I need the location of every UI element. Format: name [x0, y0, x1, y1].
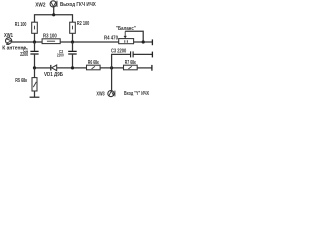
- wire R2 to mid bus: [72, 33, 74, 42]
- diode VD1: [51, 65, 57, 71]
- wire XW2 stem: [53, 7, 55, 15]
- svg-text:R4 470: R4 470: [104, 36, 118, 42]
- svg-text:"Баланс": "Баланс": [116, 26, 136, 32]
- node junction XW2 top bus: [52, 13, 55, 16]
- svg-text:2200: 2200: [20, 52, 28, 58]
- svg-text:XW2: XW2: [35, 3, 45, 9]
- wire R6 to R7: [100, 67, 123, 69]
- resistor R2: [70, 22, 76, 33]
- terminal bar mid bus: [151, 39, 153, 45]
- svg-text:VD1 Д9Б: VD1 Д9Б: [44, 72, 63, 78]
- node junction R1 mid bus: [33, 40, 36, 43]
- wire R7 to terminal: [137, 67, 151, 69]
- connector XW1: [6, 38, 12, 45]
- wire XW1 to R3: [12, 41, 42, 43]
- connector XW3: [108, 91, 115, 97]
- node junction R2 mid bus: [71, 40, 74, 43]
- resistor R1: [32, 22, 38, 33]
- svg-text:R1 100: R1 100: [15, 22, 27, 28]
- ground: [30, 96, 40, 98]
- connector XW2: [50, 1, 57, 7]
- capacitor C1: [30, 42, 38, 68]
- svg-text:XW1: XW1: [4, 33, 13, 39]
- node junction C3 XW3 bottom bus: [110, 66, 113, 69]
- node junction C1 bottom bus: [33, 66, 36, 69]
- terminal bar C3: [151, 52, 153, 58]
- wire bottom bus to XW3: [111, 68, 113, 91]
- wire bottom bus left: [35, 67, 51, 69]
- wire R3 to R4: [60, 41, 118, 43]
- wire top bus: [35, 15, 73, 22]
- wire R4 to terminal: [134, 41, 153, 43]
- svg-text:R7 68к: R7 68к: [125, 60, 136, 66]
- svg-text:Вход "Y" ИЧХ: Вход "Y" ИЧХ: [124, 91, 149, 97]
- resistor R5: [32, 68, 37, 97]
- capacitor C2: [68, 42, 77, 68]
- terminal bar bottom bus: [151, 65, 153, 71]
- wire R4 wiper loop: [125, 31, 143, 42]
- wire diode to R6: [57, 67, 87, 69]
- potentiometer R4: [119, 31, 134, 43]
- svg-text:R6 68к: R6 68к: [88, 60, 99, 66]
- svg-text:R5 68к: R5 68к: [15, 78, 27, 84]
- wire R1 to mid bus: [34, 33, 36, 42]
- svg-text:R2 100: R2 100: [77, 21, 90, 27]
- resistor R6: [87, 65, 101, 70]
- node junction wiper mid bus: [142, 40, 145, 43]
- svg-text:Выход ГКЧ ИЧХ: Выход ГКЧ ИЧХ: [60, 2, 96, 8]
- svg-text:2200: 2200: [57, 52, 64, 58]
- resistor R7: [124, 65, 138, 70]
- svg-text:С3 2200: С3 2200: [111, 49, 126, 55]
- svg-text:R3 100: R3 100: [43, 34, 57, 40]
- capacitor C3: [112, 51, 153, 68]
- svg-text:XW3: XW3: [96, 91, 104, 97]
- resistor R3: [42, 39, 60, 44]
- node junction C2 bottom bus: [71, 66, 74, 69]
